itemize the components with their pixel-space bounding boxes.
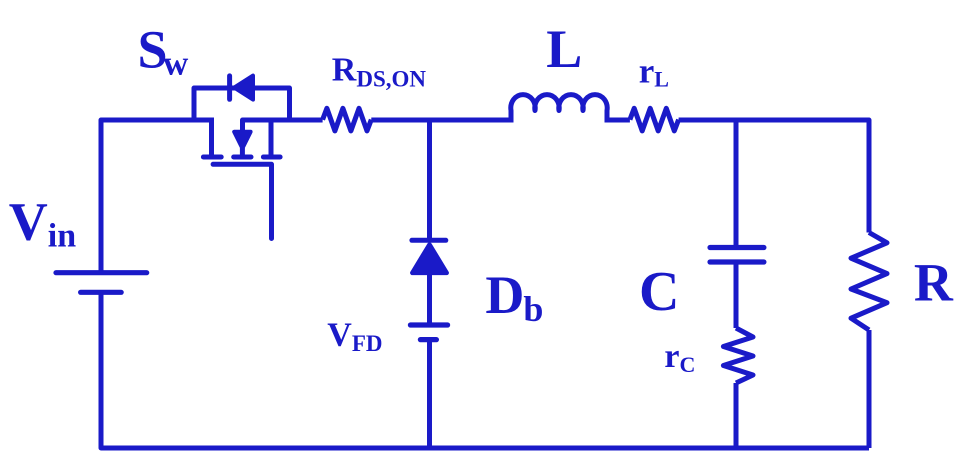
svg-text:Sw: Sw [138, 20, 190, 83]
wire left rail top and top wire to switch [101, 120, 214, 274]
battery Vin short plate [81, 290, 122, 295]
diode D1 cathode bar [227, 76, 232, 99]
resistor RDS,ON zigzag [323, 108, 372, 131]
diode Db triangle [412, 245, 446, 273]
wire C to rC [734, 262, 739, 328]
transistor Q1 arrow stem to bar [240, 148, 245, 156]
transistor Q1 body diode loop wire [194, 88, 290, 122]
diode D1 triangle [234, 76, 253, 100]
transistor Q1 right channel bar [263, 155, 280, 160]
wire resistor to inductor with node junction [371, 118, 511, 123]
resistor rL zigzag [630, 108, 679, 131]
wire VFD to bottom [427, 340, 432, 448]
svg-text:rC: rC [664, 338, 695, 377]
transistor Q1 body arrow [234, 132, 250, 149]
svg-text:VFD: VFD [327, 316, 382, 356]
wire left rail bottom and bottom wire [101, 292, 869, 448]
svg-text:Db: Db [485, 265, 543, 329]
inductor L coil [511, 95, 607, 123]
battery VFD short plate [420, 337, 436, 342]
svg-text:Vin: Vin [9, 192, 76, 255]
svg-text:L: L [546, 19, 582, 79]
svg-text:R: R [914, 253, 954, 313]
wire inductor to rL [607, 118, 630, 123]
battery Vin long plate [56, 270, 147, 275]
svg-text:RDS,ON: RDS,ON [332, 52, 427, 92]
capacitor C bottom plate [710, 259, 764, 264]
transistor Q1 source stub [269, 120, 274, 155]
transistor Q1 gate plate and gate wire [213, 164, 271, 238]
svg-text:rL: rL [639, 52, 669, 92]
wire rC to bottom [734, 383, 739, 448]
wire rL to right corner [679, 120, 869, 233]
transistor Q1 drain stub [209, 120, 214, 155]
wire C branch top [734, 120, 739, 248]
battery VFD long plate [410, 322, 447, 327]
transistor Q1 middle channel bar [234, 155, 251, 160]
wire Db branch top [427, 120, 432, 240]
diode Db cathode bar [412, 238, 446, 243]
resistor rC zigzag [723, 328, 753, 383]
wire Db to VFD [427, 274, 432, 325]
resistor R zigzag [851, 233, 887, 331]
svg-text:C: C [639, 261, 679, 323]
wire R to bottom right corner [867, 330, 872, 448]
wire from arrow stem to resistor [243, 120, 323, 131]
transistor Q1 left channel bar [203, 155, 221, 160]
capacitor C top plate [710, 245, 764, 250]
